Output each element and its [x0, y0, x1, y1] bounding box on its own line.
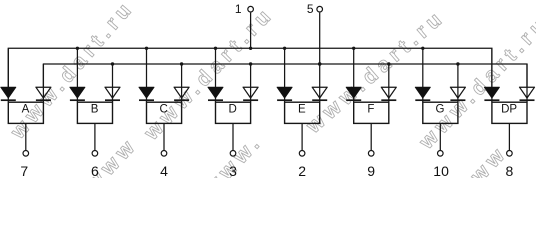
pin 4 terminal circle: [161, 151, 167, 157]
junction dot: segment E filled diode on bus 1: [283, 47, 286, 50]
wire: common bus 1 (pin 1 net, top rail) with end turns down to segment A anode-side and DP filled diode: [8, 48, 492, 87]
LED D2b: open (outline) diode of segment B: [105, 87, 120, 98]
LED D8a: filled diode of segment DP (cathode down): [484, 87, 499, 98]
pin 8 terminal circle: [507, 151, 513, 157]
cathode bar of segment B open diode: [105, 99, 120, 101]
svg-text:7: 7: [20, 163, 28, 178]
svg-text:B: B: [91, 104, 99, 116]
svg-text:www.dart.ru: www.dart.ru: [301, 5, 449, 138]
svg-text:2: 2: [298, 163, 306, 178]
svg-text:5: 5: [307, 2, 314, 16]
segment block B: [77, 102, 112, 123]
LED D8b: open (outline) diode of segment DP: [520, 87, 535, 98]
LED D7a: filled diode of segment G (cathode down): [415, 87, 430, 98]
junction dot: segment E open diode on bus 2: [318, 62, 321, 65]
junction dot: segment C filled diode on bus 1: [145, 47, 148, 50]
svg-text:F: F: [367, 104, 374, 116]
svg-text:3: 3: [229, 163, 237, 178]
cathode bar of segment C filled diode: [139, 99, 154, 101]
segment block C: [147, 102, 182, 123]
wire: segment G cathode down to pin 10: [439, 123, 441, 150]
svg-text:A: A: [22, 104, 30, 116]
junction dot: segment C open diode on bus 2: [180, 62, 183, 65]
wire: pin 1 down to bus 1: [250, 13, 252, 49]
wire: segment F cathode down to pin 9: [370, 123, 372, 150]
wire: bus 1 drop to LED D filled diode (crosses bus 2 without joint): [215, 48, 217, 102]
pin 3 terminal circle: [230, 151, 236, 157]
junction dot: segment G filled diode on bus 1: [421, 47, 424, 50]
LED D4a: filled diode of segment D (cathode down): [208, 87, 223, 98]
junction dot: segment B open diode on bus 2: [111, 62, 114, 65]
cathode bar of segment D open diode: [243, 99, 258, 101]
LED D3a: filled diode of segment C (cathode down): [139, 87, 154, 98]
junction dot: pin 5 on bus 2: [318, 62, 321, 65]
wire: bus 1 drop to LED E filled diode (crosses bus 2 without joint): [284, 48, 286, 102]
wire: bus 1 drop to LED A filled diode (crosses bus 2 without joint): [7, 48, 9, 102]
cathode bar of segment E filled diode: [277, 99, 292, 101]
segment block F: [354, 102, 389, 123]
LED D1b: open (outline) diode of segment A: [36, 87, 51, 98]
pin 10 terminal circle: [438, 151, 444, 157]
LED D7b: open (outline) diode of segment G: [450, 87, 465, 98]
svg-text:1: 1: [235, 2, 242, 16]
svg-text:E: E: [298, 104, 306, 116]
svg-text:D: D: [229, 104, 237, 116]
wire: segment C cathode down to pin 4: [163, 123, 165, 150]
segment block D: [216, 102, 251, 123]
wire: segment B cathode down to pin 6: [94, 123, 96, 150]
wire: segment A cathode down to pin 7: [25, 123, 27, 150]
cathode bar of segment F filled diode: [346, 99, 361, 101]
wire: bus 2 drop through LED A open diode to box: [42, 64, 44, 102]
cathode bar of segment G open diode: [450, 99, 465, 101]
cathode bar of segment C open diode: [174, 99, 189, 101]
pin 2 terminal circle: [299, 151, 305, 157]
svg-text:8: 8: [506, 163, 514, 178]
svg-text:G: G: [436, 104, 445, 116]
pin 1 terminal circle: [248, 6, 254, 12]
cathode bar of segment DP open diode: [520, 99, 535, 101]
wire: bus 2 drop through LED C open diode to box: [181, 64, 183, 102]
svg-text:www: www: [451, 141, 512, 178]
LED D6a: filled diode of segment F (cathode down): [346, 87, 361, 98]
wire: bus 1 drop to LED G filled diode (crosses bus 2 without joint): [422, 48, 424, 102]
pin 7 terminal circle: [23, 151, 29, 157]
wire: segment E cathode down to pin 2: [301, 123, 303, 150]
segment block G: [423, 102, 458, 123]
wire: common bus 2 (pin 5 net, second rail) with end turns down to segment A open diode and DP open diode: [43, 64, 527, 87]
junction dot: segment D open diode on bus 2: [249, 62, 252, 65]
wire: bus 1 drop to LED DP filled diode (crosses bus 2 without joint): [491, 48, 493, 102]
junction dot: segment G open diode on bus 2: [456, 62, 459, 65]
LED D1a: filled diode of segment A (cathode down): [1, 87, 16, 98]
junction dot: pin 1 on bus 1: [249, 47, 252, 50]
wire: bus 2 drop through LED G open diode to box: [457, 64, 459, 102]
cathode bar of segment F open diode: [381, 99, 396, 101]
cathode bar of segment A open diode: [36, 99, 51, 101]
svg-text:DP: DP: [501, 104, 517, 116]
svg-text:www.dart.ru: www.dart.ru: [6, 0, 139, 144]
wire: bus 2 drop through LED F open diode to box: [388, 64, 390, 102]
svg-text:6: 6: [91, 163, 99, 178]
wire: segment D cathode down to pin 3: [232, 123, 234, 150]
svg-text:4: 4: [160, 163, 168, 178]
junction dot: segment F open diode on bus 2: [387, 62, 390, 65]
cathode bar of segment A filled diode: [1, 99, 16, 101]
LED D2a: filled diode of segment B (cathode down): [70, 87, 85, 98]
junction dot: segment F filled diode on bus 1: [352, 47, 355, 50]
junction dot: segment B filled diode on bus 1: [76, 47, 79, 50]
wire: bus 2 drop through LED E open diode to box: [319, 64, 321, 102]
cathode bar of segment G filled diode: [415, 99, 430, 101]
wire: pin 5 down across bus 1 (no joint) to bus 2: [319, 13, 321, 64]
cathode bar of segment B filled diode: [70, 99, 85, 101]
cathode bar of segment DP filled diode: [484, 99, 499, 101]
segment block A: [8, 102, 43, 123]
pin 5 terminal circle: [317, 6, 323, 12]
wire: segment DP cathode down to pin 8: [508, 123, 510, 150]
cathode bar of segment D filled diode: [208, 99, 223, 101]
LED D3b: open (outline) diode of segment C: [174, 87, 189, 98]
wire: bus 2 drop through LED D open diode to box: [250, 64, 252, 102]
LED D5a: filled diode of segment E (cathode down): [277, 87, 292, 98]
LED D6b: open (outline) diode of segment F: [381, 87, 396, 98]
segment block DP: [492, 102, 527, 123]
wire: bus 2 drop through LED DP open diode to box: [526, 64, 528, 102]
wire: bus 1 drop to LED F filled diode (crosses bus 2 without joint): [353, 48, 355, 102]
junction dot: segment D filled diode on bus 1: [214, 47, 217, 50]
cathode bar of segment E open diode: [312, 99, 327, 101]
segment block E: [285, 102, 320, 123]
wire: bus 1 drop to LED B filled diode (crosses bus 2 without joint): [76, 48, 78, 102]
svg-text:C: C: [160, 104, 168, 116]
LED D5b: open (outline) diode of segment E: [312, 87, 327, 98]
svg-text:9: 9: [367, 163, 375, 178]
svg-text:10: 10: [433, 163, 449, 178]
wire: bus 2 drop through LED B open diode to box: [112, 64, 114, 102]
pin 6 terminal circle: [92, 151, 98, 157]
wire: bus 1 drop to LED C filled diode (crosses bus 2 without joint): [146, 48, 148, 102]
pin 9 terminal circle: [368, 151, 374, 157]
LED D4b: open (outline) diode of segment D: [243, 87, 258, 98]
